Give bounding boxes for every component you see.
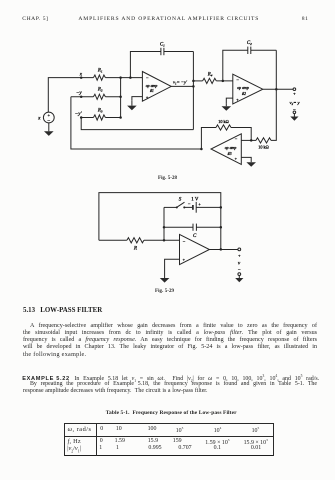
node x <box>79 71 83 78</box>
example 5.22 <box>22 374 322 383</box>
node R4 tap <box>192 80 195 83</box>
ground output terminal <box>290 114 298 121</box>
svg-text:v2= y: v2= y <box>290 100 301 106</box>
wire feedback -y loop <box>71 97 202 149</box>
ground op fig29 <box>160 274 170 283</box>
node junction bus top <box>119 76 122 79</box>
svg-text:+: + <box>293 91 296 96</box>
svg-text:1 V: 1 V <box>191 198 199 203</box>
svg-text:−: − <box>235 137 238 142</box>
svg-text:−y: −y <box>76 90 82 96</box>
ground op2 <box>222 103 232 111</box>
svg-text:C2: C2 <box>247 41 252 46</box>
caption fig 5-29 <box>155 289 174 294</box>
wire feedback -yprime loop <box>81 118 193 130</box>
svg-text:−: − <box>146 75 149 80</box>
svg-text:−: − <box>238 268 241 273</box>
ground below source <box>44 123 54 136</box>
resistor 10k right <box>256 138 271 150</box>
svg-text:+: + <box>146 95 149 100</box>
capacitor C1 <box>130 42 193 77</box>
wire -y row <box>71 96 121 98</box>
op-amp fig29 <box>180 234 210 264</box>
table title <box>106 410 237 416</box>
table row labels <box>68 426 92 433</box>
resistor R fig29 <box>99 238 144 252</box>
node C1 tap <box>129 76 132 79</box>
wire op3 plus input <box>241 157 251 160</box>
resistor R4 <box>193 73 216 84</box>
node C branch left <box>163 226 166 229</box>
svg-text:v: v <box>238 261 241 267</box>
node op3 output junction <box>200 148 203 151</box>
svg-text:#1: #1 <box>150 89 154 93</box>
table data: f row <box>100 438 103 444</box>
ground op3 <box>246 160 256 167</box>
svg-text:10 kΩ: 10 kΩ <box>258 145 268 150</box>
svg-text:R3: R3 <box>97 108 103 113</box>
resistor R3 <box>93 108 105 120</box>
capacitor C2 <box>223 41 276 81</box>
wire op2 plus input <box>226 98 233 103</box>
table borders <box>64 423 273 424</box>
svg-text:−y′: −y′ <box>75 111 83 117</box>
node op1 output junction <box>192 85 195 88</box>
battery 1V <box>185 198 221 213</box>
op-amp U2 <box>233 74 263 104</box>
section 5.13 <box>23 307 102 314</box>
svg-text:+: + <box>198 202 201 207</box>
wire input bus vertical <box>120 78 122 118</box>
wire op plus input fig29 <box>165 259 180 274</box>
svg-text:R1: R1 <box>97 68 103 73</box>
wire v2 feedback vertical <box>271 50 276 140</box>
svg-text:+: + <box>183 257 186 262</box>
op-amp U1 <box>142 72 171 102</box>
wire R to op input <box>144 239 180 241</box>
op-amp U3 <box>211 134 241 165</box>
svg-text:C1: C1 <box>160 42 165 47</box>
node R junction <box>163 239 166 242</box>
wire R4 to op2 <box>216 80 233 82</box>
node C right junction <box>220 226 223 229</box>
wire R1 to op-amp input <box>105 77 142 79</box>
wire op1 plus input <box>132 97 143 101</box>
table data: header row <box>100 426 103 432</box>
page header <box>22 16 48 22</box>
resistor R2 <box>93 88 105 100</box>
svg-text:S: S <box>179 198 182 203</box>
svg-text:−: − <box>236 77 239 82</box>
svg-text:+: + <box>238 253 241 258</box>
node -yprime <box>75 111 83 119</box>
svg-text:C: C <box>193 234 197 239</box>
output terminal fig29 <box>238 248 241 276</box>
svg-text:op amp: op amp <box>225 146 237 150</box>
wire left branch vertical fig29 <box>163 207 165 240</box>
wire 10k right to op3 <box>241 139 256 141</box>
svg-text:−: − <box>183 239 186 244</box>
svg-text:op amp: op amp <box>146 84 158 88</box>
wire op2 output <box>263 88 293 90</box>
wire outer feedback loop fig29 <box>99 193 221 250</box>
wire source top riser <box>48 78 93 113</box>
svg-text:R: R <box>133 245 138 251</box>
wire op1 output <box>171 79 193 86</box>
svg-text:v1= −y′: v1= −y′ <box>173 79 188 85</box>
output terminal plus <box>290 88 301 114</box>
capacitor C fig29 <box>164 224 221 239</box>
table data: ratio row <box>99 445 102 451</box>
node bus R2 junction <box>119 96 122 99</box>
node output junction fig29 <box>220 248 223 251</box>
switch S <box>164 198 185 209</box>
wire op1 output vertical <box>192 52 194 130</box>
caption fig 5-28 <box>158 176 177 181</box>
svg-text:R4: R4 <box>207 73 213 78</box>
node battery right junction <box>220 206 223 209</box>
svg-text:10 kΩ: 10 kΩ <box>218 119 228 124</box>
svg-text:#2: #2 <box>242 92 246 96</box>
svg-text:#3: #3 <box>228 152 232 156</box>
svg-text:x: x <box>37 115 41 121</box>
svg-text:op amp: op amp <box>237 86 249 90</box>
wire -yprime row <box>81 117 120 119</box>
node v2 junction <box>275 88 278 91</box>
ground output fig29 <box>235 276 243 283</box>
resistor 10k feedback <box>201 119 251 149</box>
svg-text:R2: R2 <box>97 88 103 93</box>
node op3 minus junction <box>250 139 253 142</box>
node op2 input junction <box>222 80 225 83</box>
svg-text:+: + <box>235 156 238 161</box>
voltage source x <box>37 112 54 124</box>
svg-text:+: + <box>48 113 51 118</box>
wire op output fig29 <box>209 249 238 251</box>
node -y <box>76 90 83 98</box>
node bus R3 junction <box>119 116 122 119</box>
resistor R1 <box>93 68 105 80</box>
svg-text:x: x <box>79 71 83 77</box>
ground op1 <box>127 101 137 110</box>
